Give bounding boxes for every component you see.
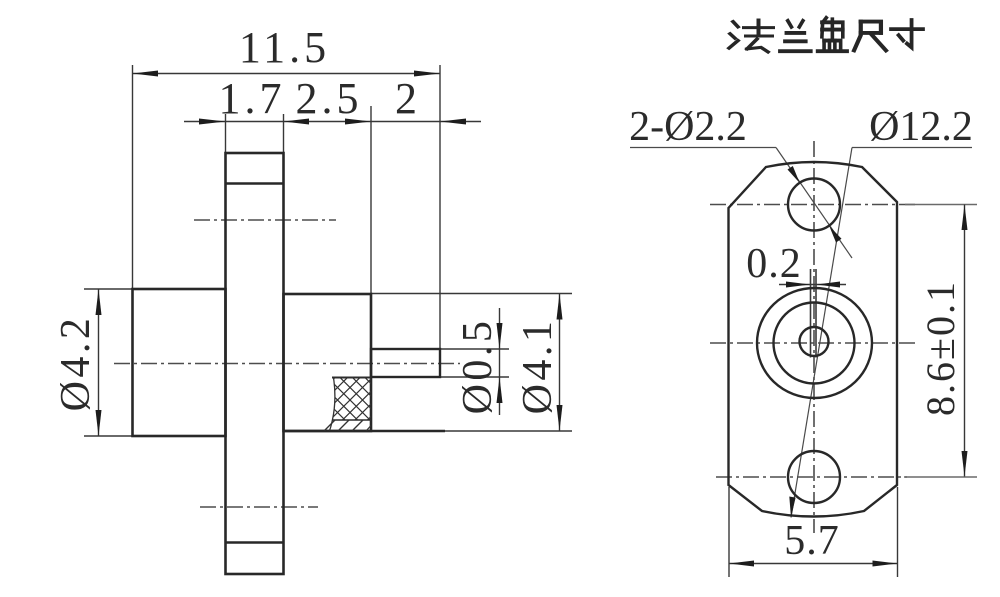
svg-text:2: 2 bbox=[395, 74, 421, 123]
svg-text:Ø4.2: Ø4.2 bbox=[53, 315, 99, 412]
svg-text:0.2: 0.2 bbox=[746, 241, 802, 287]
svg-text:5.7: 5.7 bbox=[784, 518, 840, 564]
svg-text:Ø4.1: Ø4.1 bbox=[515, 318, 561, 415]
svg-text:Ø12.2: Ø12.2 bbox=[869, 104, 973, 150]
svg-text:11.5: 11.5 bbox=[239, 23, 330, 72]
svg-text:8.6±0.1: 8.6±0.1 bbox=[918, 280, 963, 416]
svg-text:1.7: 1.7 bbox=[219, 74, 286, 123]
svg-text:2.5: 2.5 bbox=[296, 74, 363, 123]
svg-text:2-Ø2.2: 2-Ø2.2 bbox=[629, 104, 747, 150]
svg-text:Ø0.5: Ø0.5 bbox=[455, 318, 501, 415]
